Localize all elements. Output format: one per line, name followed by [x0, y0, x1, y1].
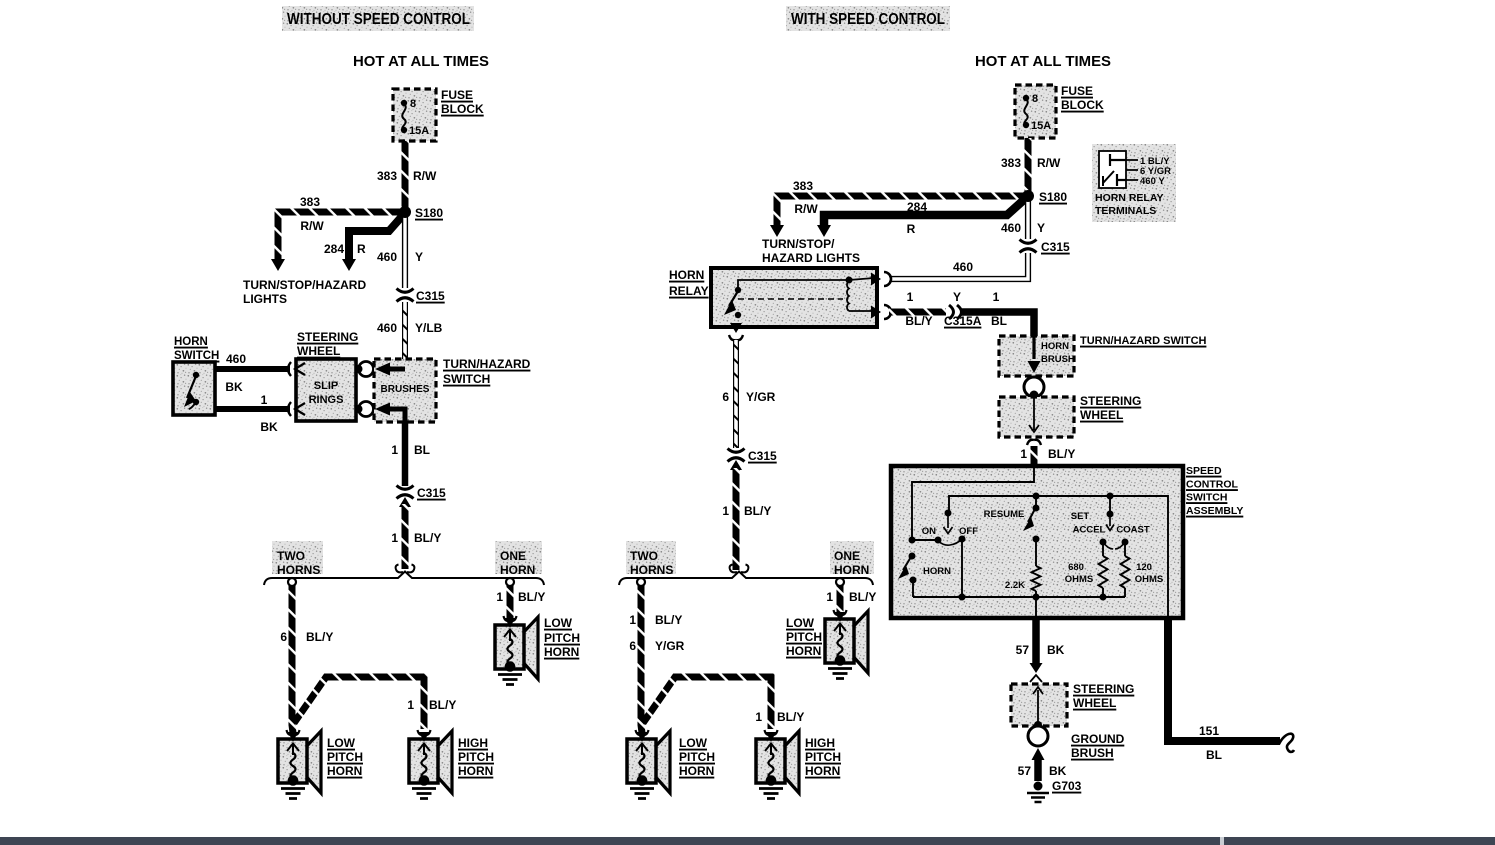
svg-text:WHEEL: WHEEL — [297, 344, 340, 358]
title: WITHOUT SPEED CONTROL — [282, 6, 474, 31]
svg-text:1: 1 — [907, 290, 914, 304]
svg-text:ASSEMBLY: ASSEMBLY — [1186, 505, 1243, 517]
fuse block (left) — [393, 89, 436, 141]
svg-text:HORN RELAY: HORN RELAY — [1095, 192, 1163, 204]
label LOW PITCH HORN (right two horns) — [679, 736, 715, 778]
svg-text:BL/Y: BL/Y — [849, 590, 876, 604]
connector C315 (right upper) — [1020, 240, 1071, 255]
low pitch horn (left one horn) — [495, 616, 538, 685]
2.2K resistor — [1005, 536, 1041, 598]
svg-text:PITCH: PITCH — [458, 750, 494, 764]
svg-text:460: 460 — [377, 321, 397, 335]
svg-text:LOW: LOW — [544, 616, 573, 630]
svg-text:460: 460 — [953, 260, 973, 274]
svg-text:SWITCH: SWITCH — [443, 372, 490, 386]
svg-text:TWO: TWO — [277, 549, 305, 563]
svg-text:TURN/HAZARD: TURN/HAZARD — [443, 357, 531, 371]
label FUSE BLOCK (right) — [1061, 84, 1104, 112]
svg-text:HIGH: HIGH — [458, 736, 488, 750]
wire 1 BL/Y to horns junction (left) — [391, 504, 441, 569]
svg-text:SET: SET — [1071, 511, 1090, 522]
svg-text:383: 383 — [377, 169, 397, 183]
svg-text:S180: S180 — [415, 206, 443, 220]
svg-text:BL/Y: BL/Y — [306, 630, 333, 644]
junction fork (right) — [730, 565, 749, 573]
svg-text:Y/GR: Y/GR — [655, 639, 685, 653]
wire 1 BL/Y to one-horn low pitch horn (left) — [496, 585, 545, 618]
wire 6 Y/GR relay to C315 (right) — [722, 340, 775, 448]
svg-text:BK: BK — [1047, 643, 1065, 657]
wire 1 BL/Y branch to high pitch horn (left) — [294, 677, 456, 729]
wire 57 BK ground to brush — [1018, 748, 1067, 781]
svg-text:OFF: OFF — [959, 526, 978, 537]
wire 383 R/W fuse to S180 (left) — [377, 141, 437, 210]
svg-text:LOW: LOW — [327, 736, 356, 750]
svg-text:R/W: R/W — [1037, 156, 1061, 170]
svg-text:Y: Y — [415, 250, 423, 264]
svg-text:C315A: C315A — [944, 314, 982, 328]
svg-text:HORN: HORN — [679, 764, 714, 778]
wire 383 R/W fuse to S180 (right) — [1001, 138, 1061, 194]
svg-text:15A: 15A — [409, 125, 429, 137]
svg-text:1: 1 — [261, 393, 268, 407]
bottom status bar — [0, 837, 1495, 845]
wire 460 Y S180 to C315 (right) — [1001, 198, 1045, 239]
svg-text:BLOCK: BLOCK — [441, 102, 484, 116]
label ONE HORN (right) — [830, 541, 874, 577]
svg-text:151: 151 — [1199, 724, 1219, 738]
svg-text:460: 460 — [226, 352, 246, 366]
horn switch (left) — [173, 362, 215, 415]
svg-text:PITCH: PITCH — [805, 750, 841, 764]
brush arrows (left) — [375, 363, 405, 423]
on/off switch — [909, 510, 979, 598]
turn/hazard switch horn brush box (right) — [999, 336, 1075, 376]
svg-text:WHEEL: WHEEL — [1080, 408, 1123, 422]
svg-text:1: 1 — [993, 290, 1000, 304]
svg-text:CONTROL: CONTROL — [1186, 479, 1238, 491]
svg-text:HORN: HORN — [669, 268, 704, 282]
bus bracket (left) — [264, 572, 544, 587]
label LOW PITCH HORN (right one horn) — [786, 616, 822, 658]
svg-text:Y/LB: Y/LB — [415, 321, 443, 335]
svg-text:1: 1 — [826, 590, 833, 604]
label HIGH PITCH HORN (left) — [458, 736, 494, 778]
svg-text:1: 1 — [391, 443, 398, 457]
svg-text:460: 460 — [1001, 221, 1021, 235]
resume switch — [984, 496, 1040, 531]
title: WITH SPEED CONTROL — [786, 6, 950, 31]
svg-text:HORN: HORN — [327, 764, 362, 778]
svg-text:RESUME: RESUME — [984, 509, 1025, 520]
label STEERING WHEEL (left) — [297, 330, 358, 358]
label TWO HORNS (left) — [272, 541, 323, 577]
svg-text:BRUSH: BRUSH — [1041, 354, 1075, 365]
horn switch (speed control) — [898, 553, 951, 598]
svg-text:HAZARD LIGHTS: HAZARD LIGHTS — [762, 251, 860, 265]
label TURN/HAZARD SWITCH (right) — [1080, 335, 1207, 347]
splice S180 (right) — [1022, 190, 1067, 204]
label TURN/HAZARD SWITCH (left) — [443, 357, 531, 386]
horn relay terminals inset — [1092, 144, 1176, 222]
svg-text:BL/Y: BL/Y — [518, 590, 545, 604]
svg-text:1: 1 — [496, 590, 503, 604]
svg-text:1: 1 — [755, 710, 762, 724]
svg-text:C315: C315 — [416, 289, 445, 303]
svg-text:1: 1 — [722, 504, 729, 518]
680 ohms resistor — [1065, 542, 1108, 597]
wire 1 BL/Y branch to high pitch horn (right) — [643, 677, 804, 729]
svg-text:BL/Y: BL/Y — [744, 504, 771, 518]
connector C315 (right lower) — [728, 449, 778, 471]
svg-text:8: 8 — [1032, 93, 1038, 105]
svg-text:RINGS: RINGS — [309, 394, 344, 406]
wire 460 C315 to horn relay (right) — [889, 253, 1028, 279]
svg-text:HORN: HORN — [834, 563, 869, 577]
svg-text:SPEED: SPEED — [1186, 465, 1222, 477]
wire 1 BL/Y steering wheel to speed control — [1020, 440, 1075, 465]
svg-text:TWO: TWO — [630, 549, 658, 563]
svg-text:BL: BL — [414, 443, 430, 457]
svg-text:HORN: HORN — [1041, 341, 1069, 352]
svg-text:383: 383 — [300, 195, 320, 209]
horn relay terminal bottom — [729, 323, 743, 340]
svg-text:WITH SPEED CONTROL: WITH SPEED CONTROL — [791, 11, 945, 28]
wire 460 Y/LB (left) — [377, 302, 443, 366]
heading HOT AT ALL TIMES (left) — [353, 53, 489, 70]
low pitch horn (right one horn) — [825, 610, 868, 679]
svg-text:383: 383 — [793, 179, 813, 193]
horn brush slip ring circle — [1024, 377, 1044, 400]
svg-text:120: 120 — [1136, 562, 1152, 573]
120 ohms resistor — [1121, 542, 1164, 597]
svg-text:1: 1 — [1020, 447, 1027, 461]
svg-text:383: 383 — [1001, 156, 1021, 170]
connector C315A — [944, 290, 982, 328]
heading HOT AT ALL TIMES (right) — [975, 53, 1111, 70]
svg-text:BL: BL — [991, 314, 1007, 328]
svg-text:STEERING: STEERING — [297, 330, 358, 344]
svg-text:S180: S180 — [1039, 190, 1067, 204]
svg-text:460 Y: 460 Y — [1140, 176, 1165, 187]
svg-text:LIGHTS: LIGHTS — [243, 292, 287, 306]
svg-text:FUSE: FUSE — [1061, 84, 1093, 98]
speed control bottom bus — [913, 594, 1125, 619]
svg-text:1: 1 — [629, 613, 636, 627]
svg-text:460: 460 — [377, 250, 397, 264]
svg-text:15A: 15A — [1031, 120, 1051, 132]
svg-text:STEERING: STEERING — [1073, 682, 1134, 696]
wire 383 R/W branch to turn/stop/hazard lights (left) — [271, 195, 405, 271]
wire 1 BL brushes to C315 (left) — [391, 422, 430, 486]
svg-text:6: 6 — [722, 390, 729, 404]
svg-text:STEERING: STEERING — [1080, 394, 1141, 408]
svg-text:OHMS: OHMS — [1065, 574, 1094, 585]
svg-text:ON: ON — [922, 526, 936, 537]
svg-text:G703: G703 — [1052, 779, 1082, 793]
svg-text:C315: C315 — [417, 486, 446, 500]
svg-text:284: 284 — [324, 242, 344, 256]
label HIGH PITCH HORN (right) — [805, 736, 841, 778]
svg-text:PITCH: PITCH — [544, 631, 580, 645]
speed control switch assembly box — [891, 466, 1183, 618]
svg-text:BL/Y: BL/Y — [905, 314, 932, 328]
horn relay box — [711, 268, 877, 327]
svg-text:OHMS: OHMS — [1135, 574, 1164, 585]
low pitch horn (right two horns) — [627, 730, 670, 799]
wire 6 BL/Y to low pitch horn (left) — [280, 585, 333, 733]
horn icon symbol definition — [0, 0, 2, 2]
svg-text:ACCEL: ACCEL — [1073, 525, 1106, 536]
slip ring contacts (circles) — [355, 362, 374, 417]
label TURN/STOP/ HAZARD LIGHTS (right) — [762, 237, 860, 265]
label TURN/STOP/HAZARD LIGHTS (left) — [243, 278, 366, 306]
wire 1 BL/Y / 6 Y/GR to low pitch horn (right) — [629, 585, 684, 733]
svg-text:BLOCK: BLOCK — [1061, 98, 1104, 112]
svg-text:HOT AT ALL TIMES: HOT AT ALL TIMES — [975, 53, 1111, 70]
svg-text:HORN: HORN — [458, 764, 493, 778]
label LOW PITCH HORN (left two horns) — [327, 736, 363, 778]
svg-text:BRUSHES: BRUSHES — [381, 384, 430, 395]
svg-text:680: 680 — [1068, 562, 1084, 573]
fuse block (right) — [1015, 85, 1056, 138]
svg-text:R/W: R/W — [413, 169, 437, 183]
svg-text:HORN: HORN — [786, 644, 821, 658]
svg-text:GROUND: GROUND — [1071, 732, 1125, 746]
svg-text:HORNS: HORNS — [630, 563, 673, 577]
svg-text:PITCH: PITCH — [327, 750, 363, 764]
wire 1 BL/Y C315 to horns junction (right) — [722, 468, 771, 570]
label ONE HORN (left) — [495, 541, 542, 577]
label HORN RELAY — [669, 268, 709, 298]
svg-text:BRUSH: BRUSH — [1071, 746, 1114, 760]
svg-text:HORNS: HORNS — [277, 563, 320, 577]
set/accel/coast switch — [1071, 496, 1150, 549]
svg-text:TURN/HAZARD SWITCH: TURN/HAZARD SWITCH — [1080, 335, 1207, 347]
svg-text:C315: C315 — [748, 449, 777, 463]
svg-text:6: 6 — [280, 630, 287, 644]
wire 284 R branch (left) — [324, 214, 404, 271]
wire 1 BL/Y relay to C315A — [889, 290, 946, 328]
svg-text:BL/Y: BL/Y — [655, 613, 682, 627]
svg-text:8: 8 — [410, 98, 416, 110]
svg-text:HIGH: HIGH — [805, 736, 835, 750]
svg-text:BL/Y: BL/Y — [1048, 447, 1075, 461]
svg-text:R: R — [357, 242, 366, 256]
label HORN SWITCH (left) — [174, 336, 219, 362]
svg-text:Y: Y — [953, 290, 961, 304]
svg-text:R: R — [907, 222, 916, 236]
svg-text:WITHOUT SPEED CONTROL: WITHOUT SPEED CONTROL — [287, 11, 470, 28]
svg-text:PITCH: PITCH — [679, 750, 715, 764]
ground G703 — [1027, 779, 1082, 802]
turn/hazard switch brushes box (left) — [374, 359, 436, 422]
svg-text:TURN/STOP/: TURN/STOP/ — [762, 237, 835, 251]
svg-text:284: 284 — [907, 200, 927, 214]
svg-text:BL: BL — [1206, 748, 1222, 762]
svg-text:TURN/STOP/HAZARD: TURN/STOP/HAZARD — [243, 278, 366, 292]
svg-text:HORN: HORN — [500, 563, 535, 577]
svg-text:BL/Y: BL/Y — [777, 710, 804, 724]
svg-text:57: 57 — [1016, 643, 1030, 657]
steering wheel box (right lower) — [1011, 684, 1067, 729]
low pitch horn (left two horns) — [278, 730, 321, 799]
svg-text:1: 1 — [407, 698, 414, 712]
svg-text:COAST: COAST — [1116, 525, 1149, 536]
svg-text:SWITCH: SWITCH — [1186, 492, 1227, 504]
splice S180 (left) — [399, 206, 443, 220]
wire 1 BL C315A to horn brush — [962, 290, 1034, 336]
connector C315 lower (left) — [397, 486, 447, 508]
svg-text:Y: Y — [1037, 221, 1045, 235]
svg-text:SLIP: SLIP — [314, 380, 338, 392]
speed control internals: entry and left rail — [912, 466, 1034, 540]
label GROUND BRUSH — [1071, 732, 1125, 760]
svg-text:HORN: HORN — [923, 566, 951, 577]
wire 57 BK speed control to steering wheel — [1016, 618, 1065, 682]
horn relay terminal out (bottom right) — [871, 305, 891, 319]
label STEERING WHEEL (right lower) — [1073, 682, 1134, 710]
junction fork (left) — [396, 565, 415, 573]
svg-text:HOT AT ALL TIMES: HOT AT ALL TIMES — [353, 53, 489, 70]
label LOW PITCH HORN (left one horn) — [544, 616, 580, 659]
steering wheel box (right upper) — [999, 397, 1074, 437]
wire 1 BL/Y to one-horn low pitch horn (right) — [826, 585, 876, 612]
svg-text:PITCH: PITCH — [786, 630, 822, 644]
svg-text:R/W: R/W — [794, 202, 818, 216]
wire 284 R branch (right) — [817, 198, 1026, 237]
connector C315 upper (left) — [397, 289, 446, 304]
svg-text:Y/GR: Y/GR — [746, 390, 776, 404]
svg-text:HORN: HORN — [174, 336, 208, 348]
svg-text:RELAY: RELAY — [669, 284, 709, 298]
svg-text:FUSE: FUSE — [441, 88, 473, 102]
label FUSE BLOCK (left) — [441, 88, 484, 116]
svg-text:R/W: R/W — [300, 219, 324, 233]
svg-text:BK: BK — [1049, 764, 1067, 778]
svg-text:BK: BK — [225, 380, 243, 394]
svg-text:2.2K: 2.2K — [1005, 580, 1025, 591]
svg-text:LOW: LOW — [786, 616, 815, 630]
wire 151 BL speed control to right — [1168, 618, 1294, 762]
high pitch horn (right) — [756, 730, 799, 799]
svg-text:HORN: HORN — [544, 645, 579, 659]
svg-text:WHEEL: WHEEL — [1073, 696, 1116, 710]
label TWO HORNS (right) — [626, 541, 676, 577]
wire 460 Y (left) — [377, 214, 423, 288]
high pitch horn (left) — [409, 730, 452, 799]
svg-text:ONE: ONE — [834, 549, 860, 563]
horn relay internals — [724, 277, 874, 319]
speed control top bus — [949, 493, 1168, 619]
horn relay terminal 460 (top right) — [871, 272, 891, 286]
svg-text:BL/Y: BL/Y — [429, 698, 456, 712]
svg-text:HORN: HORN — [805, 764, 840, 778]
svg-text:BK: BK — [260, 420, 278, 434]
svg-text:C315: C315 — [1041, 240, 1070, 254]
svg-text:TERMINALS: TERMINALS — [1095, 205, 1156, 217]
wire 460 BK horn switch to slip rings — [215, 352, 290, 394]
svg-text:6: 6 — [629, 639, 636, 653]
svg-text:57: 57 — [1018, 764, 1032, 778]
wire 383 R/W branch (right) — [770, 179, 1028, 237]
ground brush circle — [1028, 726, 1048, 746]
svg-text:ONE: ONE — [500, 549, 526, 563]
svg-text:1: 1 — [391, 531, 398, 545]
svg-text:BL/Y: BL/Y — [414, 531, 441, 545]
bus bracket (right) — [619, 572, 873, 587]
svg-text:LOW: LOW — [679, 736, 708, 750]
slip rings box (left) — [288, 359, 356, 421]
label SPEED CONTROL SWITCH ASSEMBLY — [1186, 465, 1243, 517]
label STEERING WHEEL (right upper) — [1080, 394, 1141, 422]
wire 1 BK horn switch to slip rings — [215, 393, 290, 434]
